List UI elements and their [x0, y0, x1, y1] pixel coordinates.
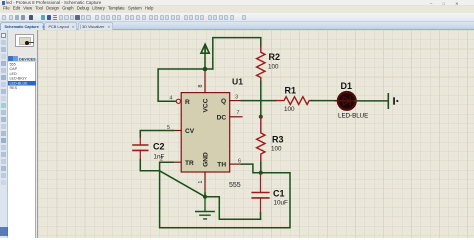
svg-text:Q: Q — [220, 98, 225, 105]
wire ground junction to C1 bottom — [205, 197, 261, 220]
wire C2 bottom to corner — [140, 160, 159, 171]
node ground junction — [202, 195, 206, 199]
wire VCC loop to R pin — [158, 53, 213, 101]
pin name DC — [216, 114, 226, 121]
terminal origin mark — [393, 97, 398, 104]
pin number 7 — [236, 110, 239, 116]
pin number 4 — [169, 96, 172, 102]
pin name R — [185, 99, 190, 106]
label R2 — [268, 52, 280, 62]
LED D1 — [335, 92, 358, 110]
pin R with inversion bubble, pin 4 — [176, 99, 180, 103]
svg-text:100: 100 — [271, 146, 282, 153]
resistor R2 — [256, 47, 264, 82]
pin name Q — [220, 98, 225, 105]
node VCC junction — [202, 67, 207, 72]
svg-text:D1: D1 — [340, 81, 352, 91]
pin number 8 — [197, 84, 203, 87]
ground terminal bar — [387, 94, 389, 108]
resistor R1 — [275, 97, 311, 105]
pin Q stub, pin 3 — [229, 100, 241, 102]
label D1 — [340, 81, 352, 91]
pin GND vertical, pin 1 — [204, 172, 206, 193]
svg-text:U1: U1 — [232, 77, 243, 87]
value 10uF — [273, 200, 288, 207]
node DC junction — [258, 115, 262, 119]
wire Q output to R1 — [241, 100, 275, 102]
svg-text:555: 555 — [229, 182, 241, 189]
svg-text:LED-BLUE: LED-BLUE — [338, 112, 368, 119]
wire R1 to LED D1 — [311, 100, 338, 102]
svg-text:100: 100 — [268, 64, 279, 71]
wire R3 bottom to TH junction — [259, 163, 261, 173]
wire R2 bottom to DC junction — [259, 82, 261, 117]
value 100 (R2) — [268, 64, 279, 71]
pin name CV — [185, 128, 195, 135]
pin number 2 — [160, 157, 163, 163]
pin name GND rotated — [202, 152, 209, 167]
value 1nF — [153, 154, 164, 161]
wire diagonal corner to ground junction — [159, 171, 204, 197]
pin number 6 — [238, 159, 241, 165]
svg-text:TH: TH — [217, 162, 226, 169]
svg-text:DC: DC — [216, 114, 226, 121]
pin number 3 — [235, 94, 238, 100]
ground symbol — [195, 197, 214, 219]
svg-text:C1: C1 — [273, 189, 285, 199]
wire C1 bottom lead — [259, 213, 261, 219]
pin TH stub, pin 6 — [229, 163, 241, 165]
wire GND pin to ground junction — [204, 193, 206, 197]
wire TR pin to corner — [159, 162, 172, 171]
pin name TR — [185, 160, 194, 167]
svg-text:TR: TR — [185, 160, 194, 167]
pin number 1 — [197, 180, 203, 183]
svg-text:6: 6 — [238, 159, 241, 165]
svg-text:C2: C2 — [153, 142, 165, 152]
resistor R3 — [256, 117, 264, 163]
pin TR stub, pin 2 — [173, 161, 181, 163]
wire feedback loop right and bottom — [159, 171, 289, 228]
pin DC stub, pin 7 — [229, 116, 241, 118]
wire CV pin to C2 — [140, 131, 173, 138]
wire LED to terminal — [355, 100, 388, 102]
label R1 — [284, 86, 296, 96]
svg-text:R3: R3 — [272, 135, 284, 145]
pin name VCC rotated — [202, 98, 209, 112]
svg-text:R1: R1 — [284, 86, 296, 96]
label U1 — [232, 77, 243, 87]
IC U1 555 timer body — [181, 93, 230, 172]
pin name TH — [217, 162, 226, 169]
label R3 — [272, 135, 284, 145]
wire TH pin to junction — [241, 164, 260, 173]
svg-text:GND: GND — [202, 152, 209, 167]
wire junction to R2 top — [212, 38, 260, 69]
svg-text:R: R — [185, 99, 190, 106]
capacitor C1 — [252, 175, 269, 214]
svg-text:10uF: 10uF — [273, 200, 288, 207]
label C1 — [273, 189, 285, 199]
svg-text:R2: R2 — [268, 52, 280, 62]
label LED-BLUE — [338, 112, 368, 119]
svg-text:CV: CV — [185, 128, 195, 135]
svg-text:4: 4 — [169, 96, 172, 102]
pin VCC vertical, pin 8 — [204, 71, 206, 93]
node TH junction — [258, 171, 262, 175]
svg-text:7: 7 — [236, 110, 239, 116]
value 100 (R1) — [284, 106, 295, 113]
value 100 (R3) — [271, 146, 282, 153]
svg-text:1: 1 — [197, 180, 203, 183]
pin CV stub, pin 5 — [173, 130, 181, 132]
capacitor C2 — [133, 137, 148, 160]
svg-text:VCC: VCC — [202, 98, 209, 112]
label 555 — [229, 182, 241, 189]
power terminal VCC arrow — [201, 44, 209, 53]
svg-text:8: 8 — [197, 84, 203, 87]
pin number 5 — [167, 125, 170, 131]
svg-text:100: 100 — [284, 106, 295, 113]
label C2 — [153, 142, 165, 152]
svg-text:3: 3 — [235, 94, 238, 100]
svg-text:1nF: 1nF — [153, 154, 164, 161]
